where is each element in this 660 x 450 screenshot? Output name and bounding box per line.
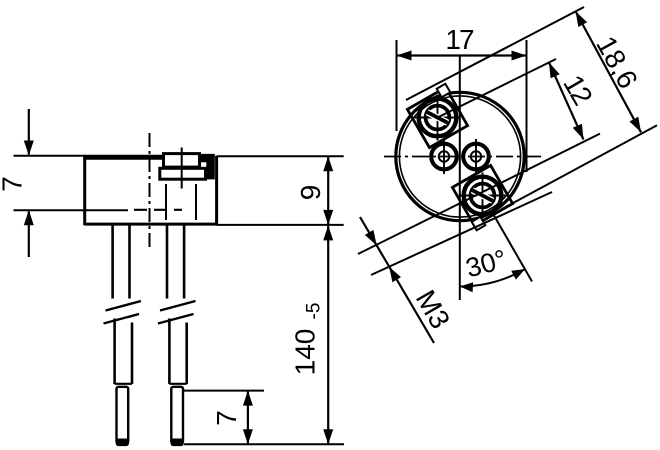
dim 18.6 upper extension line: [406, 7, 584, 100]
dim 18.6 line: [576, 11, 641, 132]
notch on bottom-right tab corner: [472, 217, 486, 231]
svg-text:140: 140: [290, 329, 321, 376]
right lead lower left edge: [168, 319, 171, 385]
dim 17 left extension line: [396, 40, 398, 131]
angle 30 deg diagonal leg (screw axis): [494, 216, 532, 282]
arrowhead down-right onto line 1: [365, 230, 377, 246]
dim 140 line: [327, 225, 329, 444]
dim 9 line: [327, 156, 329, 225]
M3 screw (top-left) inner ring: [426, 106, 450, 130]
angle 30 deg arc: [460, 269, 525, 286]
right lead break line 1: [160, 301, 196, 311]
dim 12 line: [549, 63, 584, 140]
horizontal centerline (dash-dot): [384, 156, 543, 158]
lamp pin hole left ring: [431, 144, 457, 170]
M3 screw (top-left) slot white casing: [427, 112, 447, 123]
left lead insulation end: [115, 383, 132, 385]
terminal block lower box: [160, 168, 206, 179]
left lead tip (solid): [116, 439, 129, 447]
vertical centerline (dash-dot): [149, 133, 151, 249]
right lead tip (solid): [171, 439, 184, 447]
right lead stripped end: [171, 387, 183, 443]
socket body top edge (thick): [83, 155, 163, 160]
arrowhead up-left: [549, 63, 560, 79]
M3 screw (bottom-right) head outer ring: [464, 177, 502, 215]
hidden wire-hole edge right: [195, 184, 197, 220]
dim 7 top extension line: [14, 155, 85, 157]
lamp pin hole left inner hole: [439, 151, 449, 161]
terminal block lid: [164, 154, 200, 168]
M3 screw (top-left) vertical centermark: [437, 95, 439, 141]
arrowhead down-right: [573, 124, 584, 140]
left lead lower left edge: [113, 319, 116, 385]
dim 7 bottom: top extension line: [184, 390, 264, 392]
arrowhead up-left: [576, 11, 588, 27]
dim M3 extension line 2 (tab corner): [371, 192, 552, 275]
hidden pin-depth line (dashed): [134, 209, 182, 211]
right lead insulation end: [169, 383, 186, 385]
svg-text:7: 7: [211, 410, 242, 426]
right lead lower right edge: [185, 323, 188, 385]
terminal block right cap (filled step): [200, 154, 215, 180]
dim 7 bottom line: [247, 391, 249, 445]
socket body left edge (side view): [83, 156, 86, 226]
dim 7 lower shaft: [28, 211, 30, 257]
terminal tab plate (top-left, rotated square): [407, 87, 467, 147]
right lead break line 2: [158, 314, 194, 324]
notch on top-left tab corner: [437, 84, 451, 98]
svg-text:17: 17: [445, 24, 474, 55]
dim 9 top extension line: [217, 155, 344, 157]
left lead break line 2: [104, 314, 140, 324]
arc arrowhead right: [511, 269, 525, 280]
lamp pin hole right ring: [463, 144, 489, 170]
socket body right edge: [215, 156, 218, 226]
dim 12 extension from top screw: [438, 59, 557, 118]
svg-text:9: 9: [295, 185, 326, 201]
dim M3 / dim 12 shared extension line (through bottom screw centre): [358, 134, 600, 254]
svg-text:18,6: 18,6: [590, 31, 644, 94]
arrowhead up: [24, 210, 34, 225]
arc arrowhead left: [460, 282, 473, 292]
arrowhead left: [397, 51, 412, 61]
left lead break line 1: [106, 301, 142, 311]
dim 9 / 140 shared extension line: [217, 224, 344, 226]
hidden wire-hole edge left: [165, 184, 167, 220]
dim 7 bottom extension line: [14, 209, 129, 211]
arrowhead down: [323, 210, 333, 225]
svg-text:7: 7: [0, 176, 28, 192]
left lead insulation right edge (upper): [128, 225, 131, 298]
holder outer circle (top view): [396, 92, 524, 220]
arrowhead up: [243, 391, 253, 406]
arrowhead down: [243, 429, 253, 444]
M3 screw (bottom-right) inner ring: [471, 184, 495, 208]
svg-text:30°: 30°: [463, 244, 510, 284]
left lead insulation left edge (upper): [111, 225, 114, 298]
lamp pin hole right inner hole: [471, 151, 481, 161]
terminal screw axis line: [181, 148, 183, 189]
arrowhead down: [24, 141, 34, 156]
arrowhead up: [323, 156, 333, 171]
left lead lower right edge: [131, 323, 134, 385]
arrowhead down-right: [630, 117, 642, 133]
dim 18.6 lower extension line: [501, 125, 657, 209]
holder inner rim circle: [399, 96, 520, 217]
lamp pin hole right vertical centermark: [475, 139, 477, 174]
right lead insulation left edge (upper): [166, 225, 169, 298]
svg-text:-5: -5: [303, 303, 324, 320]
M3 screw (top-left) head outer ring: [419, 99, 457, 137]
M3 screw (bottom-right) vertical centermark: [482, 173, 484, 219]
arrowhead down: [323, 429, 333, 444]
M3 screw (bottom-right) slot: [472, 190, 492, 201]
right lead insulation right edge (upper): [183, 225, 186, 298]
arrowhead up: [323, 225, 333, 240]
svg-text:M3: M3: [410, 285, 456, 334]
M3 screw (bottom-right) horizontal centermark: [460, 195, 506, 197]
dim 17 right extension line: [526, 40, 528, 172]
M3 screw (top-left) slot: [427, 112, 447, 123]
vertical reference line through center: [459, 56, 461, 301]
bottom extension line (shared 7 / 140): [184, 443, 344, 445]
terminal tab plate (bottom-right, rotated square): [452, 165, 512, 225]
dim 7 upper shaft: [28, 109, 30, 155]
lamp pin hole left vertical centermark: [443, 139, 445, 174]
arrowhead right: [512, 51, 527, 61]
svg-text:12: 12: [557, 70, 598, 110]
M3 screw (top-left) horizontal centermark: [415, 117, 461, 119]
socket body bottom edge: [85, 223, 217, 226]
arrowhead up-left onto line 2: [389, 267, 401, 283]
dim M3 arrow shaft: [360, 217, 434, 343]
left lead stripped end: [117, 387, 129, 443]
dim 17 line: [397, 54, 527, 56]
M3 screw (bottom-right) slot white casing: [472, 190, 492, 201]
